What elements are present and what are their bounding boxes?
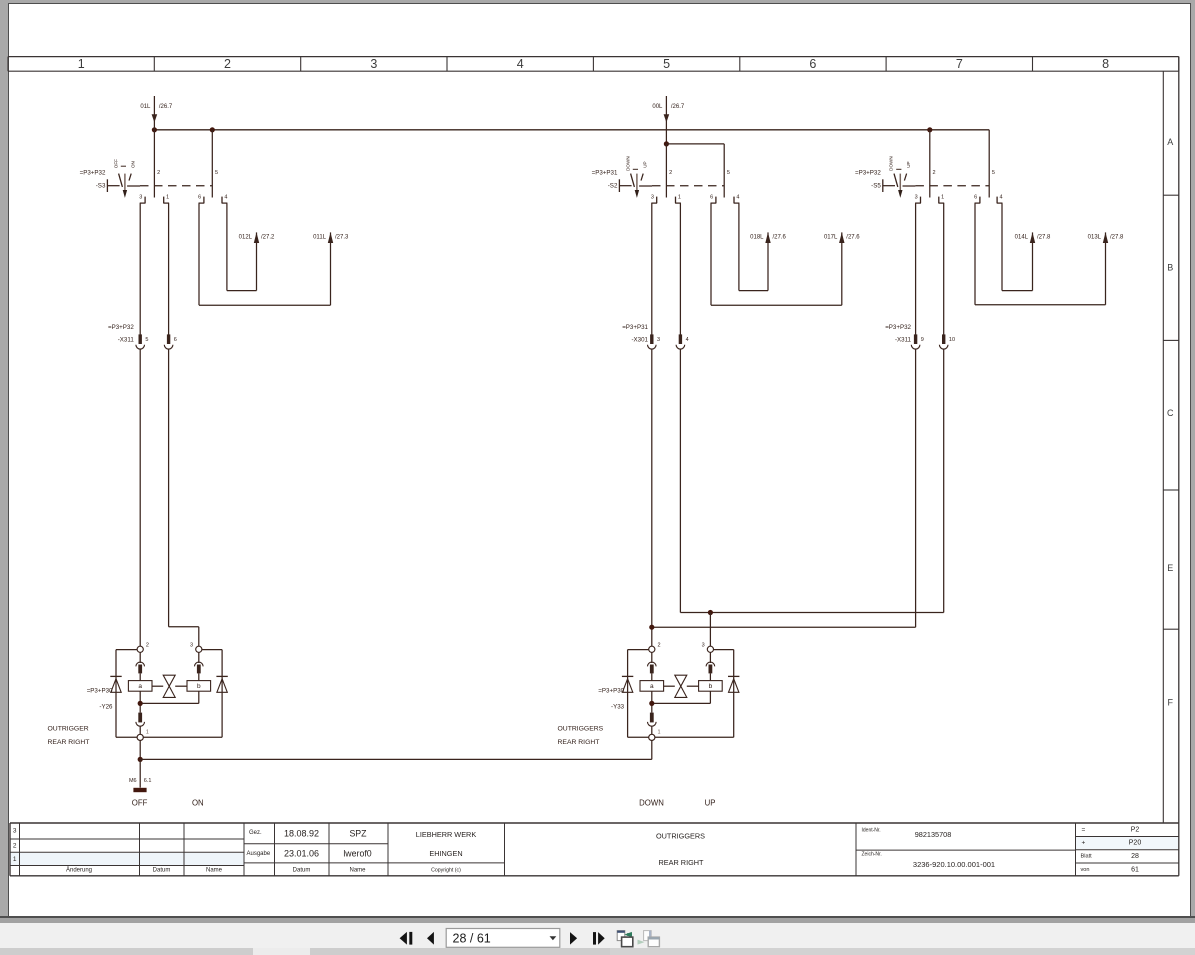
svg-text:28 / 61: 28 / 61 [453,932,491,946]
